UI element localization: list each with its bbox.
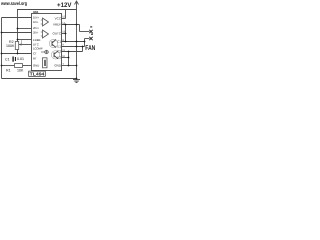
svg-text:1IN+: 1IN+ xyxy=(33,16,39,20)
potentiometer R2 body xyxy=(15,42,18,50)
op-amp U1 chip body TL494 xyxy=(32,14,62,71)
error amplifier 1 xyxy=(43,18,49,26)
svg-text:FAN: FAN xyxy=(85,45,95,52)
wire VREF pin14 xyxy=(62,24,80,26)
svg-text:1IN-: 1IN- xyxy=(33,20,38,24)
wire C2 pin11 xyxy=(62,51,83,53)
svg-text:C1: C1 xyxy=(57,40,61,44)
ground symbol xyxy=(73,80,80,83)
oscillator block xyxy=(43,58,48,68)
wire wiper vertical tie xyxy=(21,40,23,45)
dead time comparator node xyxy=(41,50,48,54)
capacitor C1 left plate xyxy=(12,57,13,62)
label TL494 xyxy=(29,71,46,76)
wire RT right xyxy=(23,65,32,67)
wire pot feed vertical xyxy=(17,10,19,42)
wire C1 pin8 xyxy=(62,41,85,43)
wire VREF to connector xyxy=(80,31,90,33)
potentiometer R2 wiper arrow xyxy=(19,43,22,45)
wire OUTCTL pin13 xyxy=(62,33,66,35)
svg-text:2IN+: 2IN+ xyxy=(33,26,39,30)
svg-text:10K: 10K xyxy=(17,69,24,73)
svg-text:CT: CT xyxy=(33,51,37,55)
wire VCC pin12 xyxy=(62,18,66,20)
junction dots xyxy=(1,24,86,80)
pin numbers xyxy=(62,16,65,67)
wire pin1 1IN+ xyxy=(2,17,32,19)
svg-text:FDBK: FDBK xyxy=(33,38,41,42)
connector X fan xyxy=(89,37,92,40)
error amplifier 2 xyxy=(43,30,49,38)
wire fan stub xyxy=(85,38,90,40)
wire VCC drop xyxy=(65,10,67,19)
wire pin15 2IN- xyxy=(2,32,32,34)
chip pin labels right xyxy=(53,16,62,67)
wire feedback xyxy=(18,39,32,41)
wire ground rail xyxy=(2,78,77,80)
connector X vref xyxy=(89,30,92,33)
svg-text:OUTC: OUTC xyxy=(53,32,62,36)
svg-text:C1: C1 xyxy=(5,57,10,61)
svg-text:R1: R1 xyxy=(6,69,11,73)
svg-text:GND: GND xyxy=(54,64,62,68)
wire wiper to DTC xyxy=(19,44,32,46)
wire 12V vertical xyxy=(76,10,78,79)
wire VREF corner down xyxy=(79,25,81,32)
connector tick marks xyxy=(90,26,92,27)
svg-text:U$1: U$1 xyxy=(33,10,39,14)
wire left bus vertical xyxy=(1,18,3,79)
svg-text:VREF: VREF xyxy=(53,23,61,27)
wire +12V rail xyxy=(17,9,77,11)
wire pin16 2IN+ xyxy=(18,28,32,30)
amp input stubs xyxy=(41,20,43,36)
svg-text:GND: GND xyxy=(33,64,39,68)
capacitor C1 right plate xyxy=(15,57,16,61)
svg-text:E1: E1 xyxy=(57,45,61,49)
transistor Q1 xyxy=(49,39,57,47)
svg-text:1COMP: 1COMP xyxy=(33,46,43,50)
wire E1 pin9 xyxy=(62,46,85,48)
wire fan corner up xyxy=(84,39,86,47)
wire vref tie vertical xyxy=(65,25,67,42)
wire pot bottom stub xyxy=(17,50,19,54)
svg-text:+12V: +12V xyxy=(57,2,72,9)
wire GND pin7 xyxy=(62,65,77,67)
chip pin labels left xyxy=(33,16,43,68)
wire RT left xyxy=(2,65,15,67)
wire emitter bus vertical xyxy=(68,52,70,66)
wire C2 tie up xyxy=(82,47,84,52)
svg-text:VCC: VCC xyxy=(55,16,62,20)
transistor Q2 xyxy=(51,51,59,59)
svg-text:TL494: TL494 xyxy=(30,72,46,77)
+12V supply arrow xyxy=(75,1,79,10)
svg-text:0.01: 0.01 xyxy=(17,57,24,61)
resistor R1 body xyxy=(15,64,23,68)
svg-text:RT: RT xyxy=(33,56,37,60)
wire E2 pin10 xyxy=(62,57,69,59)
svg-text:C2: C2 xyxy=(57,50,61,54)
svg-text:100K: 100K xyxy=(6,44,15,48)
svg-text:www.savel.org: www.savel.org xyxy=(0,1,27,7)
svg-text:E2: E2 xyxy=(57,56,61,60)
wire CT xyxy=(2,53,32,55)
svg-text:2IN-: 2IN- xyxy=(33,31,38,35)
